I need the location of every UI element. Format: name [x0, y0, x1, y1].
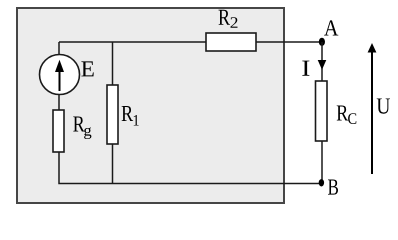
source E circle: [40, 55, 80, 95]
source E arrow: [59, 68, 61, 91]
label RC: [337, 105, 357, 124]
label B: [328, 180, 338, 195]
wire load branch vertical: [321, 42, 323, 183]
wire source E branch vertical: [58, 42, 60, 112]
resistor Rg: [53, 110, 64, 152]
resistor RC: [316, 81, 328, 141]
label A: [324, 20, 338, 35]
label U: [377, 98, 390, 113]
label R2: [219, 10, 238, 28]
node B: [319, 179, 324, 186]
wire bottom rail from Rg to node B: [59, 151, 322, 184]
label R1: [122, 106, 139, 126]
label I: [302, 61, 309, 76]
resistor R2: [206, 33, 256, 51]
label E: [81, 61, 93, 76]
node A: [319, 38, 325, 46]
wire top rail from source E to node A: [59, 41, 322, 43]
two-port network box: [17, 8, 284, 203]
current I arrow: [318, 60, 327, 70]
label Rg: [73, 116, 91, 139]
resistor R1: [107, 85, 118, 144]
voltage U arrow: [371, 52, 373, 175]
wire R1 branch vertical: [112, 42, 114, 184]
